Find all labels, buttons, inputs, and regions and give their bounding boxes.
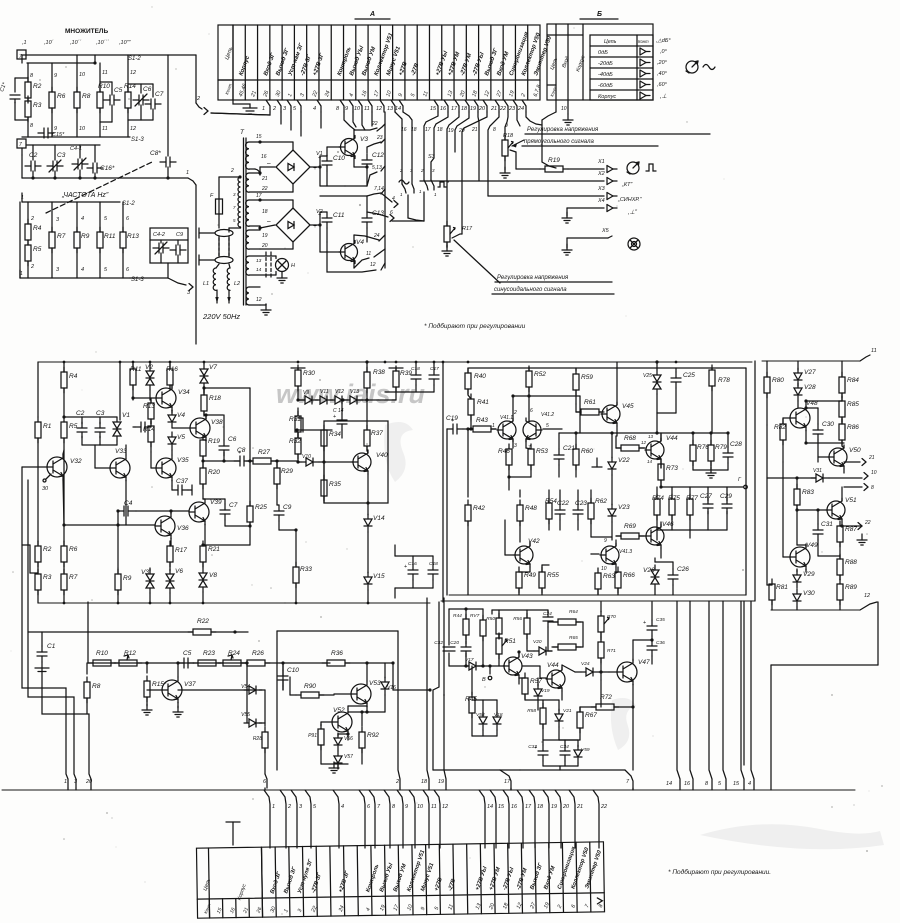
resistor R11 <box>132 362 134 369</box>
svg-text:2: 2 <box>30 264 34 270</box>
svg-text:+: + <box>333 414 336 420</box>
capacitor C10 <box>319 156 321 186</box>
svg-text:22: 22 <box>864 520 871 526</box>
output X2 <box>420 180 604 182</box>
square symbol small <box>438 182 446 187</box>
transformer winding 19-20 <box>246 230 249 249</box>
svg-text:–: – <box>266 218 271 225</box>
svg-text:R22: R22 <box>197 618 209 625</box>
transistor V34 <box>156 385 190 411</box>
svg-text:S3: S3 <box>428 154 436 160</box>
connector B right table <box>590 35 653 100</box>
wires pins 13 14 to S3 <box>395 112 402 184</box>
resistor R2 <box>25 77 42 103</box>
main lower wire <box>88 662 248 664</box>
svg-text:R38: R38 <box>373 369 385 376</box>
svg-text:V26: V26 <box>643 567 655 574</box>
sine symbol small <box>399 180 409 184</box>
svg-text:R44: R44 <box>453 613 462 619</box>
svg-text:R32: R32 <box>289 438 301 445</box>
svg-text:2: 2 <box>287 804 291 810</box>
svg-text:20: 20 <box>261 243 268 249</box>
svg-text:R7: R7 <box>69 574 78 581</box>
wire <box>472 735 497 737</box>
resistor R88 <box>839 556 841 559</box>
svg-text:R52: R52 <box>534 371 546 378</box>
svg-text:Выход ЗГ: Выход ЗГ <box>283 866 298 895</box>
svg-text:C25: C25 <box>683 372 695 379</box>
choke L2 <box>227 268 230 290</box>
svg-text:21: 21 <box>576 804 583 810</box>
fuse F <box>218 177 220 199</box>
svg-text:R23: R23 <box>203 650 215 657</box>
svg-text:7: 7 <box>377 804 381 810</box>
svg-text:R26: R26 <box>252 650 264 657</box>
svg-text:10: 10 <box>601 566 607 572</box>
lamp H <box>276 259 289 272</box>
svg-text:21: 21 <box>490 106 497 112</box>
svg-text:В: В <box>482 677 486 683</box>
resistor R80 <box>766 361 768 377</box>
svg-text:V57: V57 <box>344 754 353 760</box>
svg-text:V41.1: V41.1 <box>500 415 513 421</box>
wire <box>116 509 119 512</box>
svg-text:Т: Т <box>240 129 245 136</box>
contact <box>640 59 650 66</box>
diode V30 <box>793 589 815 607</box>
svg-text:R86: R86 <box>847 424 859 431</box>
svg-text:11: 11 <box>364 106 370 112</box>
svg-text:24: 24 <box>373 233 380 239</box>
resistor R17o <box>169 544 171 546</box>
switch S1-2 top wire <box>22 54 196 56</box>
svg-text:C8*: C8* <box>150 150 161 157</box>
svg-text:R87: R87 <box>845 526 857 533</box>
svg-text:12: 12 <box>130 126 136 132</box>
wire <box>395 555 433 557</box>
resistor R19o <box>200 435 220 461</box>
capacitor C6 <box>128 83 153 85</box>
resistor R86 <box>839 419 859 445</box>
transformer T core <box>243 138 245 305</box>
svg-text:Х5: Х5 <box>601 228 610 234</box>
svg-text:+: + <box>318 155 321 161</box>
svg-text:R2: R2 <box>43 546 52 553</box>
pin leads under A <box>266 100 270 112</box>
svg-text:,1: ,1 <box>22 40 27 46</box>
svg-text:Минус V51: Минус V51 <box>420 862 435 892</box>
svg-text:Регулировка напряжения: Регулировка напряжения <box>527 127 599 133</box>
resistor R33 <box>295 530 297 567</box>
wire <box>260 248 293 250</box>
svg-text:1: 1 <box>419 189 422 194</box>
svg-text:12: 12 <box>641 440 647 445</box>
transistor V41.3 <box>600 543 619 567</box>
svg-text:C27: C27 <box>700 493 712 500</box>
svg-text:„СИНХР.”: „СИНХР.” <box>617 197 643 203</box>
capacitor C29 <box>726 487 728 501</box>
svg-text:C19: C19 <box>446 415 458 422</box>
resistor R34 <box>321 425 341 451</box>
svg-text:V3: V3 <box>141 569 149 576</box>
svg-text:9: 9 <box>604 538 607 544</box>
svg-text:S1-3: S1-3 <box>131 137 144 143</box>
resistor R87 <box>837 521 857 547</box>
transistor V3 <box>339 136 368 159</box>
svg-text:11: 11 <box>366 251 371 257</box>
svg-text:V46: V46 <box>662 521 674 528</box>
svg-text:C11: C11 <box>333 212 345 219</box>
svg-text:R71: R71 <box>607 648 616 654</box>
resistor R27 <box>248 449 276 464</box>
svg-text:+: + <box>318 212 321 218</box>
svg-text:R68: R68 <box>624 435 636 442</box>
resistor R23 <box>193 650 221 666</box>
resistor R55 <box>539 567 559 593</box>
svg-text:9: 9 <box>420 906 427 911</box>
svg-text:R2: R2 <box>33 83 42 90</box>
capacitor C12 <box>354 166 367 168</box>
svg-text:23: 23 <box>376 135 383 141</box>
connector B outer box <box>547 24 653 100</box>
svg-text:Р91: Р91 <box>308 733 317 739</box>
svg-text:R10: R10 <box>98 83 110 90</box>
svg-text:1: 1 <box>186 170 189 176</box>
svg-text:10: 10 <box>417 804 424 810</box>
svg-text:R19: R19 <box>548 157 560 164</box>
svg-text:V3: V3 <box>360 136 368 143</box>
resistor R5 <box>61 417 78 443</box>
gnd stub <box>596 458 598 467</box>
svg-text:1: 1 <box>64 779 67 785</box>
svg-text:15: 15 <box>498 804 505 810</box>
svg-text:Цепь: Цепь <box>604 39 617 45</box>
pin 8 <box>844 486 862 488</box>
square wave symbol <box>646 164 656 171</box>
svg-text:20: 20 <box>85 779 93 785</box>
diode V14 <box>367 503 369 515</box>
resistor R39 <box>389 367 403 369</box>
svg-text:-40дБ: -40дБ <box>598 72 613 78</box>
svg-text:5: 5 <box>313 804 317 810</box>
svg-text:Г: Г <box>738 477 742 483</box>
long wires right <box>677 601 680 790</box>
svg-text:2: 2 <box>395 779 399 785</box>
capacitor C1 <box>41 632 43 646</box>
resistor R61 <box>576 399 604 415</box>
svg-text:7,14: 7,14 <box>374 186 384 192</box>
amp right edge <box>469 367 746 369</box>
svg-text:R89: R89 <box>845 584 857 591</box>
svg-text:R27: R27 <box>258 449 270 456</box>
svg-text:C22: C22 <box>557 500 569 507</box>
resistor R14 <box>143 421 155 447</box>
svg-text:0дБ: 0дБ <box>598 50 608 56</box>
resistor R57 <box>522 673 542 699</box>
contact <box>640 70 650 77</box>
dashed pointer <box>46 162 152 213</box>
resistor R42 <box>467 429 469 497</box>
svg-text:11: 11 <box>871 348 877 354</box>
resistor R52 <box>528 368 530 371</box>
capacitor C5 <box>100 81 112 83</box>
svg-text:,10´´: ,10´´ <box>70 40 81 46</box>
svg-text:7: 7 <box>626 779 630 785</box>
svg-text:R43: R43 <box>476 417 488 424</box>
svg-text:20: 20 <box>478 106 486 112</box>
svg-text:V55: V55 <box>241 712 250 718</box>
resistor R89 <box>837 579 857 605</box>
capacitor C19 <box>446 415 463 434</box>
resistor R8 <box>74 87 91 113</box>
svg-text:12: 12 <box>376 106 382 112</box>
svg-text:R55: R55 <box>547 572 559 579</box>
resistor R75 <box>671 487 673 499</box>
resistor R12 <box>114 650 142 666</box>
capacitor C2 <box>32 145 34 160</box>
svg-text:5,13: 5,13 <box>372 165 382 171</box>
svg-text:V12: V12 <box>335 389 344 395</box>
svg-text:С20: С20 <box>450 640 459 646</box>
resistor R79 <box>710 433 712 445</box>
transformer winding 15-16 <box>246 142 249 169</box>
svg-text:R5: R5 <box>33 246 42 253</box>
svg-text:R59: R59 <box>581 374 593 381</box>
transistor V40 <box>352 450 388 474</box>
pin 6 wire <box>265 774 267 788</box>
svg-text:V25: V25 <box>643 373 652 379</box>
svg-text:C6: C6 <box>228 436 237 443</box>
svg-text:C31: C31 <box>821 521 833 528</box>
svg-text:R7: R7 <box>57 233 66 240</box>
svg-text:R42: R42 <box>473 505 485 512</box>
svg-text:5: 5 <box>410 92 417 98</box>
svg-text:R5: R5 <box>69 423 78 430</box>
svg-text:18: 18 <box>421 779 428 785</box>
svg-text:V11: V11 <box>320 389 329 395</box>
svg-text:16: 16 <box>511 804 518 810</box>
svg-text:R56: R56 <box>513 616 522 622</box>
svg-text:R64: R64 <box>569 609 578 615</box>
wire <box>385 391 434 393</box>
switch contact 1 <box>215 230 233 237</box>
svg-text:16: 16 <box>440 106 447 112</box>
diode V26 <box>654 558 656 562</box>
connector B left table <box>547 34 583 36</box>
svg-text:R17: R17 <box>175 547 187 554</box>
transistor V4 <box>339 239 364 264</box>
svg-text:5: 5 <box>546 423 549 429</box>
resistor R21 <box>200 541 220 567</box>
resistor R48 <box>519 490 521 497</box>
resistor R10 <box>88 650 116 666</box>
svg-text:14: 14 <box>395 106 401 112</box>
svg-text:30: 30 <box>42 486 49 492</box>
svg-text:,60°: ,60° <box>657 82 668 88</box>
svg-text:6,7,8: 6,7,8 <box>533 84 543 97</box>
svg-text:R13: R13 <box>127 233 139 240</box>
svg-text:C1*: C1* <box>0 81 8 92</box>
svg-text:12: 12 <box>256 297 262 303</box>
svg-text:19: 19 <box>262 233 268 239</box>
switch S1-3 bottom wire <box>20 277 130 279</box>
connector symbol <box>627 162 639 174</box>
wire <box>310 224 320 226</box>
svg-text:Х2: Х2 <box>597 171 605 177</box>
svg-text:R11: R11 <box>104 233 116 240</box>
V52 block frame <box>276 631 278 770</box>
svg-text:6: 6 <box>367 804 371 810</box>
resistor R1 <box>35 417 52 443</box>
svg-text:R15*: R15* <box>152 681 167 688</box>
svg-text:,10´´´: ,10´´´ <box>96 40 109 46</box>
transistor V35 <box>156 455 189 481</box>
svg-text:2: 2 <box>420 168 424 173</box>
svg-text:19: 19 <box>551 804 557 810</box>
svg-text:V31: V31 <box>813 468 822 474</box>
svg-text:МНОЖИТЕЛЬ: МНОЖИТЕЛЬ <box>65 28 108 35</box>
svg-text:20: 20 <box>562 804 570 810</box>
svg-text:14: 14 <box>647 459 653 464</box>
svg-text:13: 13 <box>648 434 654 439</box>
svg-text:R79: R79 <box>715 444 727 451</box>
svg-text:C7: C7 <box>229 502 238 509</box>
svg-text:3: 3 <box>187 290 191 296</box>
resistor R7 <box>61 569 78 595</box>
svg-text:C3: C3 <box>57 152 66 159</box>
switch S1-3 wire <box>22 136 130 138</box>
last contact <box>597 898 602 904</box>
svg-text:14: 14 <box>487 804 493 810</box>
capacitor C13 <box>362 210 384 228</box>
svg-text:24: 24 <box>517 106 524 112</box>
resistor R7b <box>49 227 66 253</box>
svg-text:V24: V24 <box>581 661 590 667</box>
diode V28 <box>794 383 816 401</box>
wires right block <box>766 425 768 585</box>
svg-text:18: 18 <box>471 90 479 98</box>
svg-text:Контроль: Контроль <box>365 863 380 893</box>
svg-text:C9: C9 <box>283 504 292 511</box>
svg-text:10: 10 <box>871 470 877 476</box>
svg-text:V32: V32 <box>70 458 82 465</box>
svg-text:R92: R92 <box>367 732 379 739</box>
resistor R54 <box>545 498 557 524</box>
svg-text:,⊥”: ,⊥” <box>628 209 638 216</box>
+27V top rail <box>38 361 752 363</box>
capacitor C9o <box>274 504 292 521</box>
wire <box>543 739 578 741</box>
svg-text:R88: R88 <box>845 559 857 566</box>
wire <box>62 523 65 526</box>
svg-text:Вход: Вход <box>561 56 571 69</box>
svg-text:прямоугольного сигнала: прямоугольного сигнала <box>524 139 594 145</box>
svg-text:18: 18 <box>411 127 417 133</box>
svg-text:2: 2 <box>556 904 563 910</box>
svg-text:6: 6 <box>390 210 393 216</box>
transistor V36 <box>155 513 189 539</box>
svg-text:R21: R21 <box>208 546 220 553</box>
output X4 <box>567 207 604 209</box>
svg-text:C16*: C16* <box>100 165 115 172</box>
svg-text:V41.3: V41.3 <box>619 549 632 555</box>
svg-text:11: 11 <box>431 804 437 810</box>
wires from pins to A <box>344 112 355 130</box>
transistor V48 <box>790 400 818 431</box>
svg-text:-20дБ: -20дБ <box>598 61 613 67</box>
svg-text:Корпус: Корпус <box>598 94 616 100</box>
svg-text:R48: R48 <box>525 505 537 512</box>
svg-text:R54: R54 <box>545 498 557 505</box>
resistor R25 <box>204 387 250 389</box>
svg-text:4: 4 <box>81 216 84 222</box>
svg-text:R1: R1 <box>43 423 52 430</box>
R44 cluster box <box>449 608 483 610</box>
transformer winding 21-22 <box>246 173 249 192</box>
svg-text:16: 16 <box>684 781 691 787</box>
resistor R19 <box>516 168 540 170</box>
svg-text:-27В: -27В <box>447 878 457 892</box>
capacitor C23 <box>573 500 587 520</box>
transistor V33 <box>110 448 130 481</box>
svg-text:V49: V49 <box>806 542 818 549</box>
svg-text:С32: С32 <box>434 640 443 646</box>
svg-text:4: 4 <box>392 196 395 202</box>
wires down from A right pins <box>424 112 438 180</box>
mains arrows <box>216 290 218 303</box>
diode V15 <box>364 572 385 590</box>
svg-text:+27В УЫ: +27В УЫ <box>475 866 489 892</box>
svg-text:16: 16 <box>361 90 369 98</box>
right edge wires <box>195 55 197 103</box>
pin 20 wire <box>42 668 91 788</box>
svg-text:R25: R25 <box>255 504 267 511</box>
svg-text:R41: R41 <box>477 399 489 406</box>
svg-text:F: F <box>210 193 214 199</box>
svg-text:22: 22 <box>261 186 268 192</box>
right block frame <box>770 665 772 790</box>
capacitor C22 <box>555 500 569 520</box>
wire <box>260 191 293 193</box>
svg-text:1: 1 <box>492 423 495 429</box>
svg-text:R84: R84 <box>847 377 859 384</box>
transistor V47 <box>617 659 650 685</box>
amp inner box <box>442 362 444 602</box>
svg-text:16: 16 <box>401 127 407 133</box>
svg-text:V40: V40 <box>376 452 388 459</box>
resistor R4 <box>63 362 65 372</box>
svg-text:19: 19 <box>438 779 444 785</box>
resistor R32 <box>289 433 301 459</box>
transistor V45 <box>601 402 634 426</box>
svg-text:V43: V43 <box>521 653 533 660</box>
svg-text:3: 3 <box>56 217 60 223</box>
resistor R2 <box>37 541 39 545</box>
resistor R31 <box>289 411 301 437</box>
svg-text:Цепь: Цепь <box>202 878 212 892</box>
svg-text:,20°: ,20° <box>657 60 668 66</box>
svg-text:„КТ”: „КТ” <box>621 182 633 188</box>
svg-text:R60: R60 <box>581 448 593 455</box>
resistor R30 <box>291 367 305 369</box>
diode V5 <box>168 432 185 450</box>
svg-text:V36: V36 <box>177 525 189 532</box>
svg-text:V51: V51 <box>845 497 857 504</box>
svg-text:V38: V38 <box>211 419 223 426</box>
svg-text:V15: V15 <box>373 573 385 580</box>
svg-text:+27В: +27В <box>398 61 409 77</box>
svg-text:С36: С36 <box>656 640 665 646</box>
